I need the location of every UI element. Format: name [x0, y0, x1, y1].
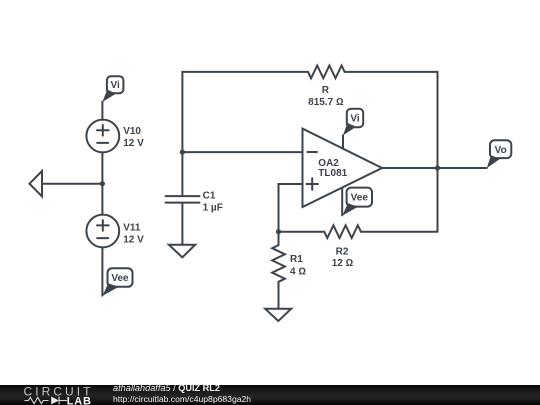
wire left rail — [181, 72, 183, 196]
flag Vee (left) — [102, 268, 132, 296]
node junction output — [435, 165, 440, 170]
resistor R1 — [272, 232, 285, 309]
label flag texts — [111, 80, 507, 284]
flag Vo — [487, 140, 512, 168]
credit text — [113, 385, 220, 393]
wire top rail right — [345, 71, 438, 73]
wire plus input — [279, 184, 303, 232]
svg-text:815.7 Ω: 815.7 Ω — [308, 97, 344, 108]
svg-text:V10: V10 — [123, 126, 141, 137]
svg-text:R2: R2 — [336, 246, 349, 257]
svg-text:Vi: Vi — [350, 114, 359, 125]
flag Vee (op-amp) — [342, 188, 372, 216]
op-amp OA2 — [303, 129, 383, 207]
wire Vi to V10 — [101, 102, 103, 120]
wire to ground arrow — [42, 183, 102, 185]
node junction left rail — [180, 150, 185, 155]
svg-text:R1: R1 — [290, 254, 303, 265]
wire output — [382, 167, 487, 169]
ground arrow symbol — [30, 171, 43, 196]
label R value — [308, 85, 344, 108]
svg-text:Vee: Vee — [111, 273, 129, 284]
label R2 value — [332, 246, 354, 269]
pin V+ of op-amp — [342, 135, 344, 149]
svg-text:12 V: 12 V — [123, 138, 144, 149]
svg-text:4 Ω: 4 Ω — [290, 266, 306, 277]
voltage source V10 — [86, 120, 119, 153]
resistor R2 — [324, 225, 437, 238]
ground under R1 — [265, 309, 291, 321]
node junction R1/R2 — [276, 229, 281, 234]
flag Vi (left) — [102, 76, 123, 102]
svg-text:V11: V11 — [123, 223, 141, 234]
wire V10 to V11 — [101, 152, 103, 214]
label R1 value — [290, 254, 306, 278]
svg-text:Vi: Vi — [111, 80, 120, 91]
wire V11 to Vee — [101, 247, 103, 295]
label V10 value — [123, 126, 144, 149]
wire junction to R2 — [279, 231, 325, 233]
svg-text:C1: C1 — [203, 190, 216, 201]
label V11 value — [123, 223, 144, 246]
svg-text:12 V: 12 V — [123, 235, 144, 246]
wire minus input — [182, 151, 302, 153]
svg-text:LAB: LAB — [67, 395, 92, 405]
svg-text:12 Ω: 12 Ω — [332, 258, 354, 269]
voltage source V11 — [86, 215, 119, 248]
pin V- of op-amp — [341, 188, 343, 216]
svg-text:Vee: Vee — [351, 193, 369, 204]
label OA2 type — [318, 158, 347, 179]
svg-text:Vo: Vo — [495, 145, 507, 156]
CircuitLab logo — [20, 384, 100, 405]
label C1 value — [203, 190, 223, 213]
svg-text:R: R — [322, 85, 330, 96]
node junction V10/V11 — [100, 181, 105, 186]
wire right rail — [437, 72, 439, 232]
resistor R — [308, 66, 345, 79]
footer bar — [0, 385, 540, 405]
ground under C1 — [169, 245, 195, 258]
svg-text:TL081: TL081 — [318, 168, 347, 179]
svg-text:1 µF: 1 µF — [203, 202, 223, 213]
capacitor C1 — [166, 196, 200, 245]
wire top rail left — [182, 71, 308, 73]
flag Vi (op-amp) — [343, 109, 363, 136]
